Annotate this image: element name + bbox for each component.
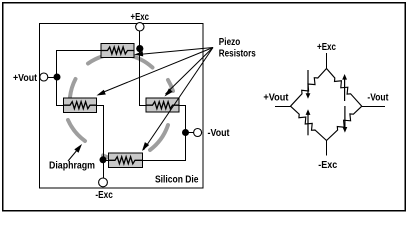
wire +Exc down to node: [139, 27, 141, 50]
resistor R1 (top): [101, 44, 134, 58]
svg-text:+Vout: +Vout: [263, 92, 289, 103]
svg-text:-Exc: -Exc: [95, 190, 113, 201]
wire +Vout stub: [275, 106, 291, 108]
diaphragm arc bottom-left short: [103, 156, 108, 158]
svg-text:Piezo: Piezo: [219, 37, 241, 48]
diaphragm arc lower-left: [68, 120, 85, 141]
wire +Vout circle to node: [47, 77, 57, 79]
svg-text:Resistors: Resistors: [219, 48, 256, 59]
wire -Vout node down to R4 right: [143, 133, 186, 161]
junction node at R1: [136, 45, 143, 52]
svg-text:-Vout: -Vout: [208, 128, 231, 139]
svg-text:Diaphragm: Diaphragm: [49, 161, 95, 172]
pointer line to R2: [100, 48, 213, 94]
silicon die outline: [40, 24, 204, 189]
pointer line to node at R1: [141, 48, 213, 55]
wire -Vout stub: [362, 106, 385, 108]
diaphragm arrow: [68, 149, 78, 161]
svg-text:-Exc: -Exc: [318, 160, 337, 171]
wire -Vout node to circle: [186, 132, 195, 134]
diaphragm arc upper-left: [88, 54, 153, 67]
resistor R3 (right): [146, 98, 179, 112]
svg-text:Silicon Die: Silicon Die: [155, 175, 199, 186]
wire node down to -Exc terminal: [103, 160, 105, 182]
arrow through bottom-right (down): [344, 106, 346, 127]
svg-text:+Vout: +Vout: [13, 73, 38, 84]
svg-text:+Exc: +Exc: [317, 42, 336, 53]
diaphragm arc left: [70, 79, 76, 97]
svg-text:-Vout: -Vout: [367, 92, 389, 103]
pointer line to R3: [166, 48, 214, 95]
wire R1 left to corner: [57, 51, 102, 106]
terminal -Exc: [99, 178, 108, 187]
terminal +Exc: [136, 23, 144, 31]
resistor R4 (bottom): [109, 153, 143, 168]
wire R3 right to -Vout node: [179, 106, 186, 133]
resistor R2 (left): [64, 98, 97, 113]
bridge resistor top-right: [327, 69, 362, 107]
diaphragm arc right-upper: [168, 80, 173, 91]
wire +Exc stub: [326, 53, 328, 69]
wire R2 right down to R4 left: [97, 106, 110, 161]
diaphragm arc right-lower: [150, 125, 168, 150]
junction node at R4: [100, 156, 107, 163]
junction node -Vout: [182, 129, 189, 136]
terminal +Vout: [40, 73, 48, 81]
arrow through top-left (down): [307, 70, 309, 94]
wire -Exc stub: [326, 140, 328, 155]
bridge resistor bottom-right: [327, 106, 362, 140]
bridge resistor bottom-left: [291, 106, 327, 140]
bridge resistor top-left: [291, 69, 327, 107]
arrow through top-right (up): [344, 79, 346, 101]
junction node +Vout: [54, 74, 61, 81]
pointer line to R4: [144, 48, 214, 151]
terminal -Vout: [194, 129, 202, 137]
wire node down to R3: [140, 50, 147, 106]
svg-text:+Exc: +Exc: [131, 12, 150, 23]
arrow through bottom-left (up): [307, 115, 309, 136]
